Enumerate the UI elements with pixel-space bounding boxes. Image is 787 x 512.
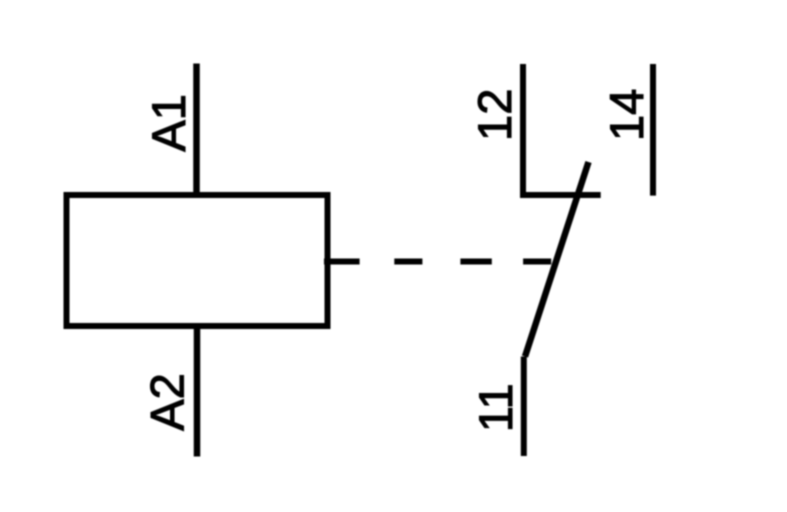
svg-text:14: 14	[600, 89, 653, 141]
wire: contact terminal 11 (common, vertical)	[521, 357, 527, 457]
NC contact seat (horizontal)	[520, 192, 601, 198]
wire: coil terminal A2 (bottom vertical)	[194, 326, 201, 457]
mechanical link (dashed line coil to contact)	[324, 259, 551, 265]
relay coil K1 (rectangle)	[67, 195, 328, 326]
svg-text:11: 11	[469, 383, 522, 432]
wire: contact terminal 12 (NC fixed, vertical)	[520, 64, 526, 195]
wire: contact terminal 14 (NO fixed, vertical)	[650, 64, 656, 196]
svg-text:12: 12	[468, 89, 521, 141]
wire: coil terminal A1 (top vertical)	[193, 64, 200, 196]
svg-text:A1: A1	[142, 94, 195, 151]
contact arm (moving diagonal)	[525, 162, 589, 357]
svg-text:A2: A2	[141, 373, 194, 431]
